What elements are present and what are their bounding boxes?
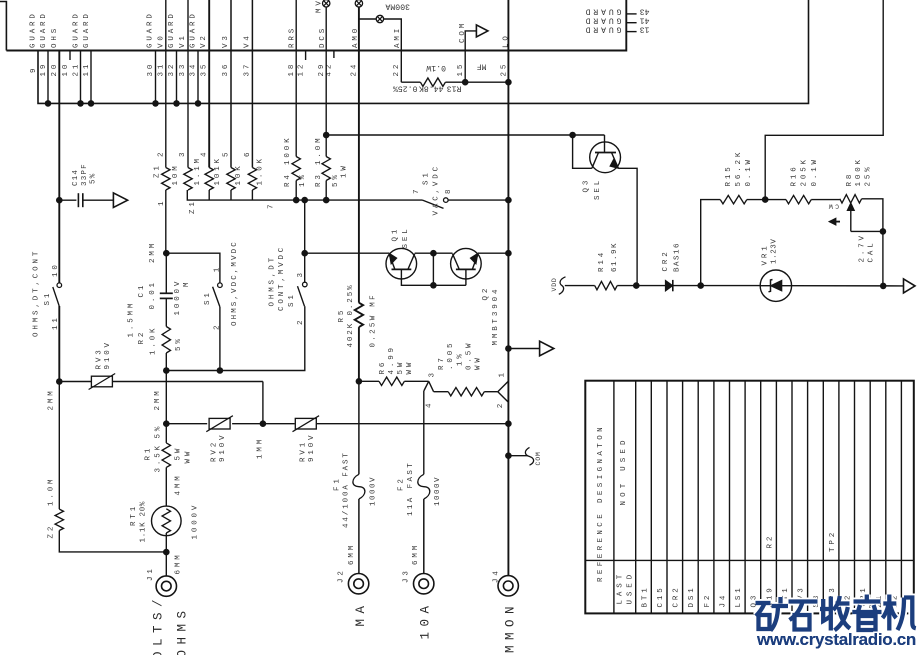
svg-text:J4: J4 bbox=[720, 593, 728, 608]
svg-text:R6: R6 bbox=[379, 360, 387, 375]
svg-text:MMBT3904: MMBT3904 bbox=[492, 287, 500, 346]
wire pin 30 guard bbox=[155, 51, 157, 104]
svg-text:RT1: RT1 bbox=[130, 504, 138, 526]
jack J2 bbox=[348, 574, 368, 594]
wire Z1 common bbox=[187, 190, 422, 200]
wire base Q1 bbox=[305, 252, 389, 254]
svg-text:33: 33 bbox=[179, 62, 187, 77]
node CR2 right bbox=[697, 282, 704, 289]
wire shunt 4 down bbox=[423, 391, 425, 474]
node C1 top bbox=[163, 250, 170, 257]
svg-text:GUARD: GUARD bbox=[147, 11, 155, 48]
node R3 bottom bbox=[323, 197, 330, 204]
wire R2 to bus bbox=[165, 371, 167, 443]
svg-text:7: 7 bbox=[268, 202, 276, 209]
wire V0 pin 31 bbox=[165, 0, 167, 168]
svg-text:10M: 10M bbox=[172, 163, 180, 185]
svg-text:1.5MM: 1.5MM bbox=[127, 301, 135, 338]
svg-text:1.1K 20%: 1.1K 20% bbox=[139, 501, 147, 543]
wire CR2 to VR1 bbox=[701, 285, 761, 287]
svg-text:44.8K: 44.8K bbox=[419, 84, 444, 93]
IC box U1 outline bbox=[0, 2, 6, 51]
node VR1 right bbox=[880, 283, 887, 290]
svg-text:36: 36 bbox=[222, 62, 230, 77]
svg-text:CAL: CAL bbox=[867, 240, 875, 262]
node R4 bottom bbox=[293, 197, 300, 204]
svg-text:1000V: 1000V bbox=[434, 476, 442, 506]
svg-text:1000V: 1000V bbox=[174, 279, 182, 316]
resistor R6 bbox=[359, 380, 379, 382]
svg-text:1000V: 1000V bbox=[191, 503, 199, 540]
svg-text:R16: R16 bbox=[791, 164, 799, 186]
node Q1 Q2 base bbox=[430, 282, 437, 289]
svg-text:1.0K: 1.0K bbox=[150, 326, 158, 355]
adjust arrow bbox=[833, 221, 840, 223]
pin 13 stub bbox=[626, 31, 636, 33]
svg-text:WW: WW bbox=[406, 360, 414, 375]
node R15 R16 bbox=[762, 196, 769, 203]
svg-text:18: 18 bbox=[288, 62, 296, 77]
svg-text:VAC,VDC: VAC,VDC bbox=[432, 164, 440, 215]
svg-text:BT1: BT1 bbox=[641, 585, 649, 607]
svg-text:R8: R8 bbox=[846, 172, 854, 187]
jack J3 bbox=[414, 574, 434, 594]
node LO COM bbox=[505, 452, 512, 459]
svg-text:15: 15 bbox=[457, 62, 465, 77]
resistor R7 bbox=[434, 391, 449, 393]
svg-text:2MM: 2MM bbox=[149, 241, 157, 263]
node J1 top bbox=[163, 549, 170, 556]
svg-text:35: 35 bbox=[200, 62, 208, 77]
svg-text:910V: 910V bbox=[104, 340, 112, 369]
svg-text:910V: 910V bbox=[219, 433, 227, 462]
wire V2 pin 35 bbox=[208, 0, 210, 168]
wire pin 15 riser bbox=[465, 31, 476, 82]
wire pin 19 guard bbox=[47, 51, 49, 104]
svg-text:2: 2 bbox=[497, 401, 505, 408]
svg-text:30: 30 bbox=[147, 62, 155, 77]
svg-text:3: 3 bbox=[297, 270, 305, 277]
svg-text:0.5W: 0.5W bbox=[466, 341, 474, 370]
svg-text:GUARD: GUARD bbox=[73, 11, 81, 48]
svg-text:R1: R1 bbox=[145, 446, 153, 461]
svg-text:TP2: TP2 bbox=[829, 530, 837, 552]
svg-text:205K: 205K bbox=[801, 157, 809, 186]
table reference designation bbox=[585, 381, 914, 614]
svg-text:WW: WW bbox=[475, 355, 483, 370]
svg-text:10: 10 bbox=[62, 62, 70, 77]
transistor Q1 bbox=[386, 248, 417, 279]
svg-text:WW: WW bbox=[185, 449, 193, 464]
switch S1 OHMS,VDC,MVDC bbox=[218, 283, 223, 288]
svg-text:44/100A FAST: 44/100A FAST bbox=[343, 451, 351, 528]
svg-text:20: 20 bbox=[51, 62, 59, 77]
svg-text:BAS16: BAS16 bbox=[673, 242, 681, 272]
svg-text:GUARD: GUARD bbox=[583, 16, 622, 25]
node R14 CR2 bbox=[633, 282, 640, 289]
svg-text:CR2: CR2 bbox=[662, 249, 670, 271]
svg-text:32: 32 bbox=[168, 62, 176, 77]
switch S1 OHMS,DT,CONT bbox=[57, 283, 62, 288]
pin 12 stub bbox=[305, 51, 307, 61]
wire Q3 emitter bbox=[618, 168, 637, 285]
wire OHS to switch bbox=[58, 200, 60, 283]
wire COM break bbox=[508, 455, 527, 457]
svg-text:GUARD: GUARD bbox=[189, 11, 197, 48]
svg-text:24: 24 bbox=[351, 62, 359, 77]
svg-text:37: 37 bbox=[244, 62, 252, 77]
svg-text:GUARD: GUARD bbox=[83, 11, 91, 48]
switch S1 OHMS,DT,CONT,MVDC bbox=[304, 253, 306, 282]
wire node down bbox=[432, 253, 434, 285]
svg-text:RV2: RV2 bbox=[211, 440, 219, 462]
guard symbol right bbox=[904, 279, 916, 293]
svg-text:2MM: 2MM bbox=[154, 388, 162, 410]
wire LO pin 25 bbox=[507, 0, 509, 575]
wire Q2 right bbox=[478, 252, 508, 254]
resistor network Z1 bbox=[162, 168, 170, 191]
svg-text:5%: 5% bbox=[90, 173, 98, 184]
svg-text:F2: F2 bbox=[704, 593, 712, 608]
svg-text:5W: 5W bbox=[175, 446, 183, 461]
wire top right riser bbox=[765, 0, 883, 200]
svg-text:RV1: RV1 bbox=[299, 440, 307, 462]
wire VR1 right bbox=[792, 285, 904, 287]
svg-text:MF: MF bbox=[477, 62, 487, 71]
wire Z1 pin1 down bbox=[165, 190, 167, 253]
svg-text:5%: 5% bbox=[155, 424, 163, 439]
wire R13 to LO bbox=[465, 81, 508, 83]
node Q3 loop bbox=[569, 132, 576, 139]
wire R3 to Q3 base bbox=[326, 134, 604, 136]
svg-text:6MM: 6MM bbox=[348, 543, 356, 565]
svg-text:43: 43 bbox=[640, 7, 650, 16]
node Q1 Q2 top bbox=[430, 250, 437, 257]
svg-text:1.23V: 1.23V bbox=[771, 238, 779, 264]
svg-text:J2: J2 bbox=[338, 568, 346, 583]
svg-text:4MM: 4MM bbox=[175, 473, 183, 495]
svg-text:61.9K: 61.9K bbox=[611, 242, 619, 272]
shunt terminal 1 2 bbox=[498, 381, 509, 392]
svg-text:1MM: 1MM bbox=[256, 437, 264, 459]
svg-text:1000V: 1000V bbox=[370, 476, 378, 506]
svg-text:Z1: Z1 bbox=[189, 199, 197, 214]
node LO Q2 bbox=[505, 250, 512, 257]
svg-text:MA: MA bbox=[354, 600, 368, 626]
resistor R4 bbox=[292, 157, 300, 181]
svg-text:F1: F1 bbox=[334, 476, 342, 491]
svg-text:25%: 25% bbox=[865, 164, 873, 186]
wire pin 11 guard bbox=[90, 51, 92, 104]
diode CR2 bbox=[636, 285, 665, 287]
svg-text:OHMS,DT,CONT: OHMS,DT,CONT bbox=[32, 249, 40, 337]
svg-text:0.01: 0.01 bbox=[149, 280, 157, 309]
svg-text:M: M bbox=[183, 280, 191, 287]
fuse F2 bbox=[418, 474, 430, 499]
svg-text:100K: 100K bbox=[855, 157, 863, 186]
svg-text:NOT USED: NOT USED bbox=[620, 436, 628, 505]
svg-text:6MM: 6MM bbox=[412, 543, 420, 565]
pin 10 stub bbox=[69, 51, 71, 61]
svg-text:Z1: Z1 bbox=[154, 163, 162, 178]
svg-text:RV3: RV3 bbox=[96, 347, 104, 369]
node R8 wiper bbox=[880, 228, 887, 235]
wire to guard symbol bbox=[508, 348, 539, 350]
R8 wiper bbox=[850, 209, 852, 231]
transistor Q3 bbox=[590, 142, 621, 173]
node LO switch bbox=[505, 197, 512, 204]
svg-text:S1: S1 bbox=[288, 292, 296, 307]
svg-text:3: 3 bbox=[179, 150, 187, 157]
lamp 300MA bbox=[376, 15, 383, 22]
svg-text:1%: 1% bbox=[299, 172, 307, 187]
varistor RV2 bbox=[166, 423, 207, 425]
svg-text:1: 1 bbox=[214, 265, 222, 272]
svg-text:1: 1 bbox=[499, 370, 507, 377]
svg-text:VR1: VR1 bbox=[761, 243, 769, 265]
svg-text:R4 100K: R4 100K bbox=[284, 136, 292, 187]
wire Z1 common down bbox=[304, 200, 306, 253]
wire pin 32 guard bbox=[176, 51, 178, 104]
wire to J1 bbox=[165, 552, 167, 576]
svg-text:C15: C15 bbox=[657, 585, 665, 607]
node switch2 bottom bbox=[217, 367, 224, 374]
svg-text:3.5K: 3.5K bbox=[155, 443, 163, 472]
svg-text:2MM: 2MM bbox=[48, 388, 56, 410]
resistor R13 bbox=[401, 81, 420, 83]
resistor R16 bbox=[765, 199, 786, 201]
svg-text:R2: R2 bbox=[766, 534, 774, 549]
svg-text:SEL: SEL bbox=[402, 226, 410, 248]
svg-text:DS1: DS1 bbox=[688, 585, 696, 607]
wire DCS pin 29 bbox=[325, 7, 327, 157]
node R13 right bbox=[462, 79, 469, 86]
node RV3 bus bbox=[260, 420, 267, 427]
svg-text:910V: 910V bbox=[308, 433, 316, 462]
VDD break symbol bbox=[559, 277, 566, 295]
svg-text:R15: R15 bbox=[725, 164, 733, 186]
svg-text:S1: S1 bbox=[204, 290, 212, 305]
svg-text:4: 4 bbox=[425, 401, 433, 408]
svg-text:VDD: VDD bbox=[551, 277, 558, 291]
svg-text:9: 9 bbox=[30, 66, 38, 73]
watermark chinese logo bbox=[756, 595, 916, 631]
svg-text:V3: V3 bbox=[222, 33, 230, 48]
svg-text:101K: 101K bbox=[214, 156, 222, 185]
svg-text:2.7V: 2.7V bbox=[858, 233, 866, 262]
svg-text:VOLTS/: VOLTS/ bbox=[152, 594, 166, 655]
node bus left bbox=[163, 420, 170, 427]
svg-text:31: 31 bbox=[158, 62, 166, 77]
svg-text:CONT,MVDC: CONT,MVDC bbox=[278, 245, 286, 311]
svg-text:1.1M: 1.1M bbox=[194, 156, 202, 185]
svg-text:LS1: LS1 bbox=[735, 585, 743, 607]
svg-text:GUARD: GUARD bbox=[40, 11, 48, 48]
resistor R3 bbox=[322, 157, 330, 181]
svg-text:3: 3 bbox=[429, 370, 437, 377]
COM break symbol bbox=[525, 447, 533, 465]
svg-text:0.1W: 0.1W bbox=[745, 157, 753, 186]
svg-text:CW: CW bbox=[826, 203, 839, 210]
svg-text:Q3: Q3 bbox=[582, 178, 590, 193]
wire OHS pin 20 bbox=[58, 51, 60, 201]
pin 41 stub bbox=[626, 22, 636, 24]
node base wire left bbox=[301, 250, 308, 257]
potentiometer R8 bbox=[840, 195, 862, 203]
svg-text:www.crystalradio.cn: www.crystalradio.cn bbox=[756, 630, 916, 649]
svg-text:J1: J1 bbox=[147, 566, 155, 581]
svg-text:2: 2 bbox=[158, 150, 166, 157]
svg-text:34: 34 bbox=[190, 62, 198, 77]
svg-text:25: 25 bbox=[501, 62, 509, 77]
svg-text:56.2K: 56.2K bbox=[735, 150, 743, 187]
svg-text:CR2: CR2 bbox=[673, 585, 681, 607]
guard symbol C14 bbox=[113, 193, 127, 208]
svg-text:S1: S1 bbox=[423, 170, 431, 185]
transistor Q2 bbox=[451, 248, 482, 279]
wire switch1 down bbox=[58, 306, 60, 382]
svg-text:Q2: Q2 bbox=[482, 286, 490, 301]
svg-text:OHMS,DT: OHMS,DT bbox=[269, 255, 277, 306]
svg-text:LAST: LAST bbox=[616, 571, 624, 605]
thermistor RT1 bbox=[152, 506, 182, 536]
svg-text:V0: V0 bbox=[157, 33, 165, 48]
pin 43 stub bbox=[626, 13, 636, 15]
svg-text:COM: COM bbox=[535, 451, 542, 465]
svg-text:8: 8 bbox=[445, 187, 453, 194]
svg-text:13: 13 bbox=[640, 24, 650, 33]
svg-text:7: 7 bbox=[413, 187, 421, 194]
svg-text:R2: R2 bbox=[138, 330, 146, 345]
pin 42 stub bbox=[333, 51, 335, 59]
svg-text:11A FAST: 11A FAST bbox=[407, 461, 415, 516]
svg-text:11: 11 bbox=[83, 62, 91, 77]
svg-text:V4: V4 bbox=[244, 33, 252, 48]
wire Q2 left bbox=[433, 252, 452, 254]
svg-text:R5: R5 bbox=[338, 308, 346, 323]
svg-text:Q1: Q1 bbox=[391, 227, 399, 242]
wire Q2 base bbox=[465, 269, 467, 285]
svg-text:REFERENCE DESIGNATON: REFERENCE DESIGNATON bbox=[597, 424, 605, 582]
svg-text:0.25W MF: 0.25W MF bbox=[370, 293, 378, 347]
svg-text:R7: R7 bbox=[438, 355, 446, 370]
resistor R15 bbox=[720, 195, 747, 203]
svg-text:10: 10 bbox=[52, 262, 60, 277]
svg-text:10K: 10K bbox=[235, 163, 243, 185]
svg-text:6MM: 6MM bbox=[175, 552, 183, 574]
node switch1 RV3 bbox=[56, 378, 63, 385]
svg-text:V2: V2 bbox=[200, 33, 208, 48]
svg-text:1.0K: 1.0K bbox=[256, 156, 264, 185]
svg-text:5%: 5% bbox=[332, 172, 340, 187]
svg-text:22: 22 bbox=[393, 62, 401, 77]
svg-text:19: 19 bbox=[40, 62, 48, 77]
svg-text:OHS: OHS bbox=[51, 26, 59, 48]
resistor R1 bbox=[162, 443, 170, 468]
resistor R14 bbox=[565, 285, 595, 287]
wire pin 9 guard bbox=[38, 0, 809, 103]
svg-text:R3 1.0M: R3 1.0M bbox=[315, 136, 323, 187]
node R3 top bbox=[323, 132, 330, 139]
resistor Z2 bbox=[55, 509, 63, 530]
svg-text:OHMS: OHMS bbox=[175, 605, 189, 655]
node R6 junction bbox=[356, 378, 363, 385]
svg-text:1.0M: 1.0M bbox=[48, 477, 56, 506]
wire R5 down bbox=[358, 327, 360, 381]
node LO guard bbox=[505, 345, 512, 352]
wire C1 junction to switch2 bbox=[166, 253, 220, 283]
svg-text:0.1W: 0.1W bbox=[811, 157, 819, 186]
switch S1 VAC,VDC bbox=[423, 200, 444, 208]
guard symbol mid bbox=[540, 341, 554, 356]
shunt terminal 3 4 bbox=[424, 381, 429, 391]
svg-text:GUARD: GUARD bbox=[583, 24, 622, 33]
svg-text:GUARD: GUARD bbox=[168, 11, 176, 48]
svg-text:1W: 1W bbox=[341, 163, 349, 178]
wire Q1 collector to node bbox=[415, 252, 434, 254]
node LO R13 bbox=[505, 79, 512, 86]
capacitor C14 bbox=[59, 199, 76, 201]
wire AM0 pin 24 bbox=[358, 7, 360, 303]
svg-text:0.25%: 0.25% bbox=[393, 84, 418, 93]
svg-text:5W: 5W bbox=[397, 360, 405, 375]
zener VR1 bbox=[760, 270, 791, 301]
svg-text:J4: J4 bbox=[493, 568, 501, 583]
svg-text:402K 0.25%: 402K 0.25% bbox=[347, 283, 355, 347]
varistor RV1 bbox=[263, 423, 295, 425]
wire pin 34 guard bbox=[197, 51, 199, 104]
svg-text:21: 21 bbox=[73, 62, 81, 77]
svg-text:1: 1 bbox=[158, 199, 166, 206]
svg-text:GUARD: GUARD bbox=[583, 7, 622, 16]
svg-text:4: 4 bbox=[201, 150, 209, 157]
svg-text:0.1W: 0.1W bbox=[426, 63, 446, 72]
svg-text:F2: F2 bbox=[398, 476, 406, 491]
svg-text:R13: R13 bbox=[447, 84, 462, 93]
svg-text:12: 12 bbox=[297, 62, 305, 77]
svg-text:.005: .005 bbox=[447, 341, 455, 370]
wire lamp3 right bbox=[384, 19, 402, 82]
svg-text:R14: R14 bbox=[598, 250, 606, 272]
varistor RV3 bbox=[59, 381, 91, 383]
wire lamp3 left bbox=[359, 18, 376, 20]
capacitor C1 bbox=[165, 253, 167, 293]
svg-text:S1: S1 bbox=[44, 291, 52, 306]
jack J1 bbox=[156, 576, 176, 596]
lamp AM0 bbox=[355, 0, 362, 7]
svg-text:2: 2 bbox=[214, 323, 222, 330]
lamp DCS bbox=[323, 0, 330, 7]
jack J4 bbox=[498, 576, 518, 596]
svg-text:33PF: 33PF bbox=[81, 163, 89, 186]
guard symbol COM top bbox=[476, 25, 488, 37]
svg-text:6: 6 bbox=[244, 150, 252, 157]
svg-text:10A: 10A bbox=[419, 600, 433, 639]
svg-text:41: 41 bbox=[640, 16, 650, 25]
resistor R2 bbox=[162, 327, 170, 353]
svg-text:2: 2 bbox=[297, 318, 305, 325]
node LO bus bbox=[505, 420, 512, 427]
fuse F1 bbox=[358, 381, 360, 474]
svg-text:C1: C1 bbox=[138, 283, 146, 298]
wire V4 pin 37 bbox=[251, 0, 253, 168]
svg-text:Z2: Z2 bbox=[48, 524, 56, 539]
wire pin 21 guard bbox=[80, 51, 82, 104]
svg-text:5: 5 bbox=[223, 150, 231, 157]
wire R8 down bbox=[882, 231, 884, 286]
resistor R5 bbox=[355, 303, 363, 327]
wire Q3 collector loop bbox=[573, 135, 592, 168]
